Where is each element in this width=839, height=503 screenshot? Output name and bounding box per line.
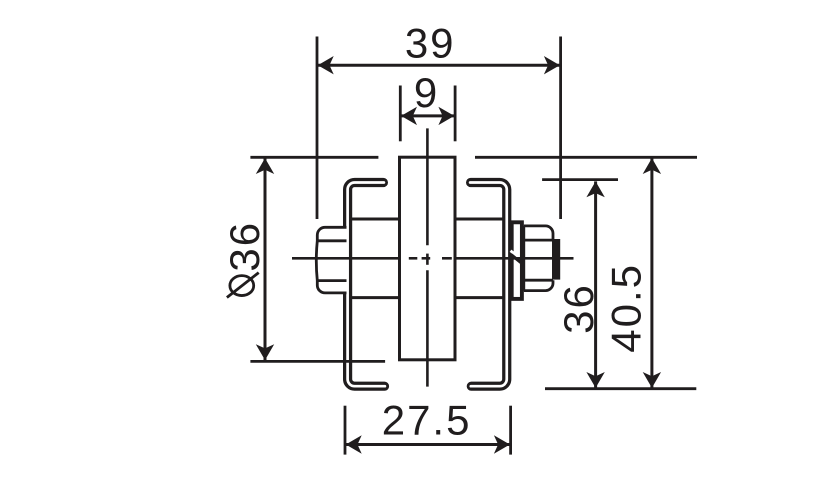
left bracket (C-channel rail, outer+inner contour) — [348, 183, 385, 387]
hex bolt head (left) — [316, 227, 346, 293]
dimension phi36: arrowheads — [256, 158, 274, 174]
dimension 9: dimension line — [401, 114, 454, 117]
dimension 39: arrowheads — [318, 56, 334, 74]
dimension 39: extension lines — [316, 37, 319, 220]
dimension 27.5: extension lines — [344, 406, 347, 455]
dimension 36: arrowheads — [586, 181, 604, 197]
dimension 9: arrowheads — [401, 107, 417, 125]
shaft bottom line right — [454, 296, 505, 299]
svg-text:36: 36 — [221, 221, 268, 272]
shaft top line right — [454, 218, 505, 221]
horizontal center line — [292, 257, 574, 260]
bolt threaded tip (solid black) — [552, 239, 560, 280]
dimension 40.5: top extension line — [475, 156, 697, 159]
spring washer (right, split washer) — [511, 222, 524, 299]
right bracket (C-channel rail, outer+inner contour) — [470, 183, 507, 387]
dimension 27.5: arrowheads — [346, 435, 362, 453]
vertical center line — [426, 128, 429, 386]
dimension phi36: dimension line — [264, 158, 267, 360]
svg-text:27.5: 27.5 — [382, 397, 472, 444]
dimension 40.5: arrowheads — [643, 158, 661, 174]
svg-text:9: 9 — [414, 69, 439, 116]
svg-text:36: 36 — [555, 283, 602, 334]
phi symbol of phi36 label (ellipse + slash) — [227, 273, 259, 298]
shared bottom extension line (36 / 40.5) — [545, 387, 696, 390]
dimension 39: dimension line — [318, 64, 560, 67]
dimension 27.5: dimension line — [346, 443, 510, 446]
roller hub (central wheel, width 9) — [400, 157, 456, 360]
dimension phi36: extension lines — [250, 156, 378, 159]
dimension 36: dimension line — [594, 181, 597, 388]
dimension 9: extension lines — [399, 86, 402, 142]
shaft top line left — [351, 218, 402, 221]
svg-text:39: 39 — [405, 20, 456, 67]
dimension 40.5: dimension line — [650, 158, 653, 388]
dimension 36 right: top extension line — [542, 178, 618, 181]
svg-text:40.5: 40.5 — [603, 263, 650, 353]
nut (right) — [524, 226, 553, 291]
shaft bottom line left — [351, 296, 402, 299]
